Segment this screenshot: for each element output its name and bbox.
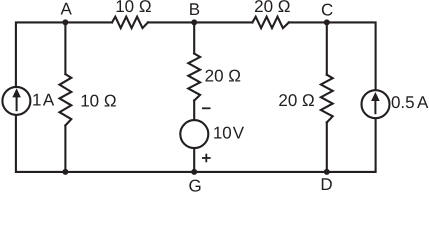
wire top right: R2 to corner, down to current source I2: [289, 22, 376, 89]
arrow of current source I2: [371, 92, 380, 114]
resistor R1 10ohm horizontal A-B: [112, 17, 148, 28]
resistor R3 10ohm vertical below A: [60, 74, 72, 125]
svg-text:20 Ω: 20 Ω: [205, 67, 241, 86]
current source I1 circle 1A: [2, 87, 30, 115]
svg-text:A: A: [61, 0, 73, 19]
wire top middle: R1 to R2: [148, 21, 252, 23]
wire resistor R5 to node D: [326, 122, 328, 171]
wire voltage source V1 to node G: [193, 149, 195, 172]
svg-text:10 Ω: 10 Ω: [115, 0, 151, 16]
node dot below A: [62, 169, 68, 175]
node dot D: [324, 169, 330, 175]
resistor R5 20ohm vertical below C: [321, 75, 333, 123]
resistor R4 20ohm vertical below B: [188, 54, 200, 101]
svg-text:20 Ω: 20 Ω: [278, 91, 314, 110]
svg-text:B: B: [189, 0, 200, 19]
wire node A down to resistor R3: [64, 22, 66, 74]
wire bottom: [16, 116, 376, 172]
wire node C down to resistor R5: [326, 22, 328, 74]
resistor R2 20ohm horizontal B-C: [252, 17, 289, 28]
wire node B down to resistor R4: [193, 22, 195, 53]
svg-text:0.5: 0.5: [391, 93, 415, 112]
svg-text:G: G: [188, 177, 201, 193]
node dot A: [62, 19, 68, 25]
wire top left: corner to resistor R1: [16, 22, 112, 86]
wire resistor R3 to bottom: [64, 126, 66, 172]
node dot C: [324, 19, 330, 25]
svg-text:A: A: [417, 93, 429, 112]
voltage source V1 circle 10V: [180, 120, 208, 148]
polarity plus of V1: [202, 154, 211, 163]
svg-text:1: 1: [32, 91, 41, 110]
svg-text:10 Ω: 10 Ω: [80, 92, 116, 111]
svg-text:C: C: [321, 1, 333, 20]
svg-text:10: 10: [213, 124, 232, 143]
current source I2 circle 0.5A: [362, 90, 390, 118]
svg-text:20 Ω: 20 Ω: [254, 0, 290, 16]
polarity minus of V1: [202, 107, 211, 109]
svg-text:D: D: [320, 175, 332, 192]
svg-text:V: V: [233, 124, 245, 143]
svg-text:A: A: [43, 91, 55, 110]
node dot G: [191, 169, 197, 175]
arrow of current source I1: [12, 88, 21, 111]
node dot B: [191, 19, 197, 25]
wire resistor R4 to voltage source V1: [193, 101, 195, 120]
